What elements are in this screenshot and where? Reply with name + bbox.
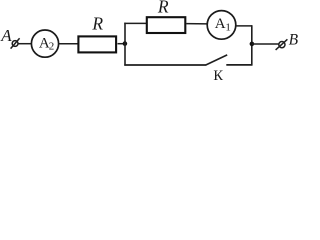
wire (18, 43, 32, 45)
ammeter A2 (31, 30, 58, 57)
wire (118, 43, 125, 45)
resistor R1 (78, 36, 116, 52)
wire left vertical (124, 23, 126, 66)
terminal A (11, 38, 20, 48)
switch K fixed contact / wire bottom branch right (226, 64, 252, 66)
node junction right (250, 42, 255, 47)
svg-text:2: 2 (49, 41, 55, 53)
svg-text:R: R (91, 13, 103, 33)
svg-text:B: B (289, 31, 299, 48)
svg-text:К: К (213, 68, 223, 82)
switch K lever (206, 55, 227, 65)
wire bottom branch left (124, 64, 206, 66)
svg-text:A: A (0, 26, 12, 45)
wire to terminal B (252, 43, 279, 45)
svg-text:1: 1 (225, 22, 231, 34)
terminal B (276, 39, 288, 50)
svg-text:A: A (215, 16, 226, 32)
ammeter A1 (207, 11, 236, 40)
wire (59, 43, 78, 45)
svg-text:R: R (157, 0, 169, 17)
wire top branch middle (186, 23, 208, 25)
wire right vertical (251, 25, 253, 65)
resistor R2 (147, 17, 186, 33)
wire top branch left (124, 22, 146, 24)
node junction left (123, 41, 128, 46)
wire top branch right (236, 25, 253, 27)
